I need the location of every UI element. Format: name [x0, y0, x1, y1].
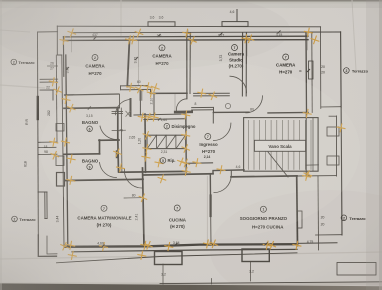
- bottom exterior wall lower line: [72, 249, 297, 251]
- bottom-left terrace pilaster: [44, 192, 46, 219]
- left terrace outer edge: [37, 32, 40, 235]
- dimension tick slashes: [66, 31, 310, 248]
- soggiorno top wall: [231, 176, 297, 177]
- label cucina: [169, 205, 187, 229]
- right terrace bottom: [316, 234, 342, 236]
- matrimoniale door dim line: [124, 197, 143, 199]
- terrace boundary line above top wall: [57, 25, 320, 28]
- bagno2 right wall: [117, 139, 120, 172]
- bagno2 door leaf: [116, 152, 118, 158]
- label bagno2: [82, 158, 99, 169]
- tick on bottom line: [211, 279, 213, 285]
- orange survey crosses center: [112, 82, 225, 176]
- bottom-left terrace top edge: [38, 191, 47, 193]
- camera3 bottom wall: [268, 111, 308, 114]
- label soggiorno: [240, 206, 288, 229]
- bottom exterior wall upper line: [65, 244, 297, 247]
- corridor jamb vertical: [119, 95, 121, 109]
- camera3 door swing: [246, 96, 263, 113]
- bagno1 door swing: [100, 126, 117, 140]
- dark radiator bar on left terrace: [37, 97, 39, 119]
- bottom-left corner step: [38, 235, 56, 256]
- stairwell box: [244, 118, 319, 172]
- stair treads: [248, 120, 311, 169]
- studio south wall double: [194, 92, 230, 94]
- box2 drop line: [250, 262, 252, 282]
- bottom-right small rect: [337, 263, 376, 276]
- label camera studio: [228, 45, 245, 69]
- right outer boundary: [341, 32, 342, 235]
- wall below stairs to right edge: [297, 175, 337, 177]
- balcony rect top-center: [222, 22, 248, 27]
- camera2 bottom wall: [151, 92, 188, 94]
- ingresso door swing: [213, 123, 231, 141]
- matrimoniale door swing: [124, 169, 141, 188]
- cucina top wall: [144, 174, 213, 175]
- orange survey crosses left band: [49, 77, 77, 185]
- label vano scala: [254, 140, 305, 151]
- box1 drop line: [162, 264, 164, 284]
- bagno1 window: [56, 124, 64, 132]
- terrace line left lower: [38, 153, 57, 155]
- camera1 bottom wall: [65, 94, 120, 95]
- studio door swing: [230, 76, 247, 93]
- closet hatched box: [147, 135, 186, 148]
- soggiorno door swing: [214, 176, 231, 193]
- right terrace inner edge: [320, 27, 322, 109]
- photo vignette edges: [379, 0, 382, 290]
- dimension extension lines faint: [72, 30, 308, 112]
- bottom terrace front line: [57, 253, 298, 263]
- niche wall left of camera2 door: [139, 90, 141, 115]
- wall between cucina and soggiorno: [209, 174, 211, 196]
- right terrace inner line: [317, 176, 320, 250]
- camera1 door leaf: [130, 99, 132, 116]
- cucina dimension extension line: [206, 176, 208, 243]
- wall between camera studio and camera3: [241, 33, 243, 97]
- bagno2 top wall: [64, 153, 100, 156]
- balcony rect top-left: [148, 22, 175, 27]
- camera2 door swing: [176, 99, 187, 111]
- dimension texts: [24, 10, 325, 277]
- label camera matrimoniale: [77, 205, 131, 227]
- bagno2 door swing: [100, 163, 117, 178]
- camera3 right exterior wall: [305, 32, 308, 113]
- ingresso wall corner vertical: [213, 108, 215, 113]
- matrimoniale window box: [57, 173, 65, 187]
- bagno1 SE wall stub: [112, 110, 123, 112]
- top exterior wall outer line: [72, 31, 341, 34]
- facade line left: [55, 55, 58, 142]
- terrace divider lines left: [38, 141, 56, 143]
- stair diagonal: [268, 152, 288, 177]
- orange survey crosses stairs and right: [302, 109, 345, 181]
- camera1 door swing: [116, 100, 131, 115]
- bagno separation wall right part: [99, 139, 119, 141]
- right building edge by stairs: [336, 116, 338, 176]
- ingresso door jamb vertical: [212, 113, 214, 123]
- apartment left wall inner top: [62, 37, 64, 77]
- dimension tick top-center: [236, 10, 238, 22]
- label terrazzo top-right: [344, 68, 369, 74]
- terrace step lines upper-left: [40, 78, 58, 80]
- camera1 door wall segment: [121, 85, 149, 87]
- left terrace top edge: [38, 31, 58, 33]
- label terrazzo top-left: [11, 59, 35, 65]
- terrace corner step: [57, 26, 62, 55]
- bottom long line lower apartment: [160, 282, 382, 284]
- soggiorno right wall: [296, 176, 299, 246]
- cucina door leaf: [210, 196, 212, 217]
- vent circle symbol ingresso: [225, 103, 230, 108]
- wall right of disimpegno: [185, 113, 188, 172]
- label camera2: [152, 45, 172, 66]
- label terrazzo bottom-right: [341, 215, 366, 221]
- soggiorno right window: [298, 211, 303, 228]
- label camera1: [85, 55, 105, 77]
- room labels: [11, 45, 369, 230]
- right mid ledge line: [306, 164, 318, 166]
- bagno1 door jambs: [112, 129, 126, 131]
- apartment left wall inner line: [66, 55, 68, 246]
- bottom wall right extension: [297, 242, 337, 245]
- bagno1 right wall: [117, 108, 119, 139]
- top exterior wall middle line: [64, 35, 309, 38]
- wall between camera2 and camera studio: [186, 33, 188, 99]
- pencil x mark near camera1 door: [126, 111, 130, 116]
- label rip: [160, 158, 175, 164]
- camera3 right window: [309, 61, 314, 79]
- disimpegno top wall: [134, 114, 186, 115]
- window box2 bottom: [242, 249, 269, 262]
- disimpegno left wall: [144, 114, 147, 172]
- orange survey crosses top band: [60, 28, 321, 46]
- orange survey crosses bottom band: [59, 163, 301, 260]
- label bagno1: [82, 120, 99, 132]
- ingresso bottom line: [187, 162, 213, 165]
- right terrace bottom edge: [321, 106, 341, 108]
- step wall near soggiorno door: [213, 170, 244, 174]
- niche jamb verticals: [139, 90, 141, 101]
- label terrazzo bottom-left: [12, 216, 36, 222]
- camera matrimoniale right wall: [143, 168, 145, 246]
- bagno1 top wall: [64, 107, 119, 110]
- short line above right edge: [329, 115, 337, 117]
- ingresso top wall right part: [213, 111, 249, 113]
- label ingresso: [199, 134, 218, 160]
- camera3 right wall inner line: [311, 33, 313, 113]
- bagno2 window: [56, 156, 64, 166]
- window box1 bottom: [155, 252, 183, 265]
- entrance door leaf: [175, 111, 192, 114]
- apartment left wall outer line: [62, 55, 64, 247]
- bagno jog vertical: [99, 140, 101, 154]
- ingresso north wall double: [192, 106, 214, 108]
- stair landing inner line: [312, 118, 314, 171]
- soggiorno door jamb vertical: [230, 170, 232, 175]
- wall between camera1 and camera2: [127, 39, 129, 87]
- pilaster right of stairs upper: [327, 127, 339, 136]
- pilaster right of stairs lower: [327, 156, 339, 165]
- rip bottom wall: [119, 170, 187, 173]
- camera matrimoniale top wall: [66, 179, 144, 180]
- wall right of ingresso: [305, 113, 307, 176]
- label camera3: [276, 54, 296, 75]
- label disimpegno: [164, 123, 196, 129]
- top exterior wall inner line: [64, 39, 309, 42]
- corridor wall inner line: [120, 108, 123, 172]
